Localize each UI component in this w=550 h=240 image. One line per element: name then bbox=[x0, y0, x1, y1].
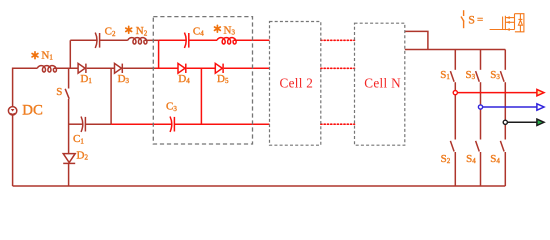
asterisk N1 bbox=[32, 25, 220, 58]
wire top bus bbox=[405, 49, 506, 51]
capacitor C1 bbox=[81, 117, 85, 132]
svg-text:N1: N1 bbox=[41, 49, 53, 61]
asterisk N3 bbox=[215, 25, 221, 32]
wire DC riser and main wire to N1 bbox=[13, 68, 38, 106]
dashed boxes bbox=[153, 17, 404, 146]
wire N1 to D1 bbox=[54, 67, 78, 69]
svg-text:D4: D4 bbox=[178, 73, 190, 85]
node black/green output arrow bbox=[503, 119, 544, 125]
cell 1 dashed box bbox=[153, 17, 252, 144]
wire leg1 upper bbox=[454, 50, 456, 70]
node red output arrow bbox=[453, 89, 544, 95]
wire dotted main rail bbox=[321, 67, 355, 69]
wire N3 to Cell2 bbox=[233, 39, 269, 41]
svg-text:S: S bbox=[56, 86, 62, 98]
wire C2 to N2 bbox=[100, 39, 128, 41]
wire leg1 mid bbox=[454, 82, 456, 139]
svg-text:C2: C2 bbox=[105, 26, 116, 38]
wire N2 to junction bbox=[144, 39, 158, 41]
capacitor C2 bbox=[95, 33, 99, 48]
Cell N box bbox=[355, 23, 405, 145]
capacitor C4 bbox=[184, 33, 188, 48]
svg-text:S4: S4 bbox=[466, 153, 476, 165]
asterisk N2 bbox=[126, 26, 132, 33]
wire vertical branch to top rail bbox=[69, 40, 71, 68]
node blue output arrow bbox=[478, 104, 544, 110]
orange component labels bbox=[22, 13, 500, 165]
diode legend antiparallel bbox=[519, 14, 521, 32]
svg-text:D2: D2 bbox=[77, 149, 89, 161]
svg-text:S1: S1 bbox=[440, 69, 450, 81]
svg-text:S3: S3 bbox=[490, 69, 500, 81]
wire junction vertical top branch bbox=[158, 40, 160, 68]
wire vertical D1-D3 junction down to C-rail bbox=[110, 68, 112, 124]
wire leg2 mid bbox=[480, 82, 482, 139]
wire C-rail bright + C3 bbox=[111, 123, 172, 125]
wire leg2 upper bbox=[480, 50, 482, 70]
legend IGBT symbol bbox=[490, 14, 524, 32]
bright red section bbox=[111, 33, 269, 132]
switch S blade bbox=[65, 89, 69, 99]
svg-text:D1: D1 bbox=[80, 73, 92, 85]
right output section dark red bbox=[405, 31, 506, 186]
svg-text:S4: S4 bbox=[490, 153, 500, 165]
svg-text:S: S bbox=[468, 13, 475, 27]
wire leg3 mid bbox=[504, 82, 506, 139]
wire DC to bottom bus bbox=[12, 115, 14, 186]
wire dotted top rail bbox=[321, 39, 355, 41]
wire leg3 upper bbox=[504, 50, 506, 70]
switch S2 blade bbox=[450, 141, 454, 152]
svg-text:N3: N3 bbox=[224, 24, 236, 36]
switch S1 blade bbox=[450, 71, 454, 82]
svg-text:N2: N2 bbox=[136, 25, 148, 37]
svg-text:S3: S3 bbox=[466, 69, 476, 81]
dotted interconnects between cells bbox=[321, 40, 355, 124]
svg-text:S2: S2 bbox=[441, 153, 451, 165]
svg-text:=: = bbox=[477, 14, 483, 26]
diode D4 bbox=[178, 63, 186, 73]
wire dotted C-rail bbox=[321, 123, 355, 125]
switch S4 blade bbox=[476, 141, 480, 152]
legend switch glyph bbox=[461, 10, 464, 28]
wire D3 to colour change bbox=[123, 67, 155, 69]
wire top branch to C2 bbox=[70, 39, 97, 41]
svg-text:C3: C3 bbox=[166, 101, 177, 113]
inductor N2 bbox=[128, 38, 147, 44]
wire bottom bus bbox=[13, 185, 506, 187]
wire vertical D4-D5 junction to C-rail bbox=[200, 68, 202, 124]
inductor N3 bbox=[217, 38, 236, 44]
capacitor C3 bbox=[170, 117, 174, 132]
wire top branch to C4 bbox=[159, 39, 186, 41]
transistor S legend gate lead bbox=[490, 29, 515, 31]
diode D2 pointing down bbox=[63, 154, 75, 163]
wire D4 to D5 bbox=[187, 67, 216, 69]
diode D3 bbox=[115, 63, 123, 73]
DC source circle bbox=[8, 107, 16, 115]
svg-text:C4: C4 bbox=[193, 25, 204, 37]
wire D2 to bottom bus bbox=[68, 163, 70, 186]
diode D5 bbox=[215, 63, 223, 73]
switch S5 blade bbox=[500, 71, 504, 82]
Cell 2 box bbox=[270, 22, 321, 146]
switch S6 blade bbox=[500, 141, 504, 152]
wire leg1 lower bbox=[454, 152, 456, 186]
diode D1 bbox=[78, 63, 86, 73]
inductor N1 bbox=[37, 66, 56, 72]
svg-text:Cell 2: Cell 2 bbox=[280, 75, 314, 90]
switch S3 blade bbox=[476, 71, 480, 82]
wire Cell N upper output with step bbox=[405, 31, 428, 49]
wire switch-S vertical upper bbox=[68, 68, 70, 88]
wire C4 to N3 bbox=[189, 39, 217, 41]
svg-text:D5: D5 bbox=[217, 73, 229, 85]
svg-text:C1: C1 bbox=[73, 133, 84, 145]
wire C-rail left + C1 bbox=[69, 123, 83, 125]
svg-text:Cell N: Cell N bbox=[364, 75, 401, 90]
wire leg2 lower bbox=[480, 152, 482, 186]
wire leg3 lower bbox=[504, 152, 506, 186]
wire S to D2 bbox=[68, 99, 70, 154]
wire main into cell1 bbox=[156, 67, 179, 69]
wire D5 to Cell2 bbox=[224, 67, 270, 69]
wire D1 to D3 bbox=[87, 67, 115, 69]
svg-text:DC: DC bbox=[22, 102, 43, 118]
svg-text:D3: D3 bbox=[118, 73, 130, 85]
